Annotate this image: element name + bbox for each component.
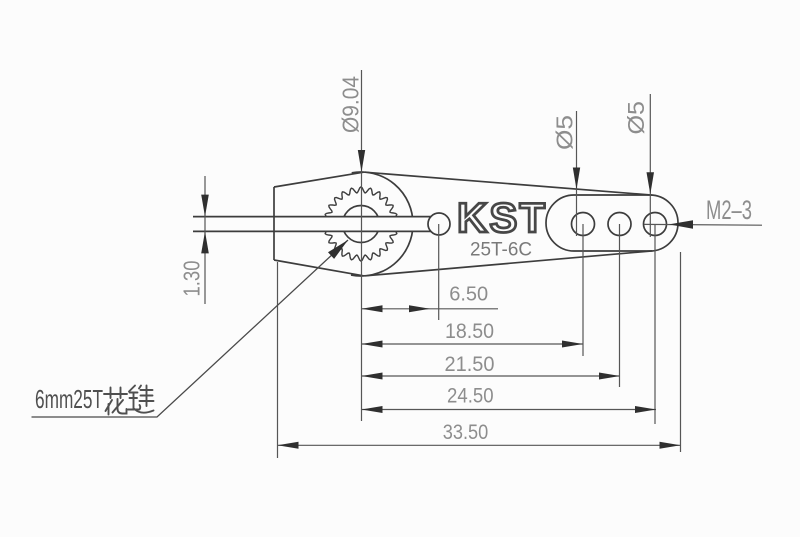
svg-text:33.50: 33.50	[443, 420, 489, 444]
svg-text:25T-6C: 25T-6C	[470, 239, 532, 261]
svg-text:21.50: 21.50	[445, 352, 495, 376]
svg-text:24.50: 24.50	[447, 383, 494, 407]
svg-text:1.30: 1.30	[178, 261, 204, 297]
svg-text:6.50: 6.50	[449, 282, 488, 305]
svg-text:KST: KST	[457, 194, 547, 241]
svg-text:6mm25T: 6mm25T	[35, 384, 103, 414]
svg-text:Ø9.04: Ø9.04	[337, 76, 363, 133]
svg-text:Ø5: Ø5	[552, 115, 578, 150]
svg-text:Ø5: Ø5	[623, 101, 649, 135]
svg-text:18.50: 18.50	[445, 319, 494, 343]
svg-text:M2–3: M2–3	[706, 195, 752, 225]
